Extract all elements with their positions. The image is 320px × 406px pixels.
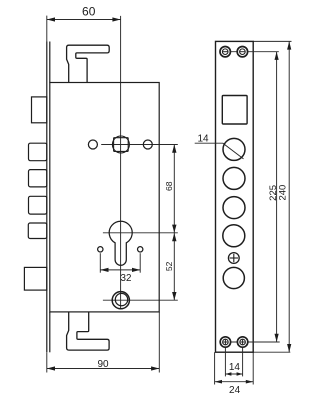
svg-text:32: 32	[121, 273, 132, 284]
svg-text:24: 24	[229, 385, 241, 396]
svg-text:68: 68	[164, 181, 174, 191]
svg-text:240: 240	[278, 185, 289, 201]
svg-text:14: 14	[229, 362, 241, 373]
svg-text:52: 52	[164, 261, 174, 271]
svg-text:60: 60	[82, 5, 96, 19]
svg-text:90: 90	[97, 359, 109, 370]
